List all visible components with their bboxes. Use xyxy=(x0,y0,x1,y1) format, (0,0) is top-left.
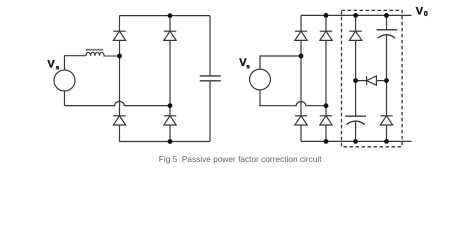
svg-text:Fig 5 Passive power factor co: Fig 5 Passive power factor correction ci… xyxy=(159,154,322,164)
svg-text:s: s xyxy=(246,64,250,71)
svg-text:0: 0 xyxy=(424,11,428,18)
svg-text:V: V xyxy=(416,6,424,18)
svg-text:s: s xyxy=(56,65,60,72)
svg-text:V: V xyxy=(47,58,55,70)
